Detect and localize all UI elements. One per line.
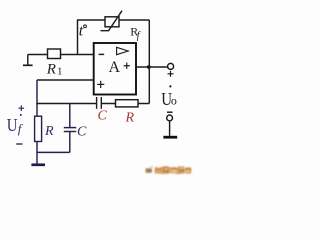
op-amp minus sign (99, 53, 105, 55)
label Uo phasor dot (169, 85, 171, 87)
svg-text:C: C (77, 125, 87, 140)
label Uf plus (19, 105, 25, 111)
ground (inverting input side) (23, 55, 33, 66)
label Uf phasor dot (20, 114, 22, 116)
wire top feedback horizontal (78, 19, 106, 21)
wire series branch to left node (36, 103, 96, 105)
wire R bottom lead to ground (36, 142, 38, 164)
wire inverting input (28, 54, 94, 56)
op-amp triangle (117, 47, 129, 54)
label Uo minus (167, 111, 173, 113)
svg-text:U: U (7, 115, 18, 135)
resistor R (parallel, blue) (35, 116, 42, 141)
op-amp U1 (94, 43, 136, 95)
wire feedback vertical left (77, 19, 79, 54)
resistor R (series, red label) (116, 100, 139, 107)
svg-text:o: o (171, 94, 177, 108)
wire top feedback right segment (119, 19, 149, 21)
svg-text:t: t (79, 23, 84, 40)
capacitor C series (red label) (97, 97, 102, 109)
ground (output) (163, 136, 177, 139)
svg-text:R: R (44, 124, 54, 139)
capacitor C (parallel, blue) (64, 104, 76, 153)
wire series branch bottom (101, 103, 149, 105)
wire left vertical to RC node (36, 80, 38, 116)
op-amp plus (output side) (124, 63, 130, 69)
op-amp plus (non-inverting) (97, 81, 104, 88)
wire output (136, 66, 168, 68)
svg-text:R: R (46, 61, 56, 77)
node output junction (147, 65, 151, 69)
output terminal lower (167, 115, 173, 121)
resistor R1 (48, 49, 61, 59)
label Uo plus (168, 71, 174, 77)
label Uf minus (16, 143, 22, 145)
svg-text:R: R (125, 111, 135, 126)
output terminal upper (168, 63, 174, 69)
wire lower terminal stub (169, 121, 171, 136)
wire bottom rail (37, 151, 70, 153)
svg-text:A: A (109, 59, 121, 76)
svg-text:1: 1 (57, 65, 63, 77)
svg-text:C: C (98, 109, 108, 124)
thermistor Rf (101, 11, 123, 31)
ground (bottom left) (31, 163, 45, 166)
watermark (146, 166, 192, 174)
wire non-inverting input (37, 79, 94, 81)
wire right vertical (feedback + series branch) (148, 20, 150, 104)
